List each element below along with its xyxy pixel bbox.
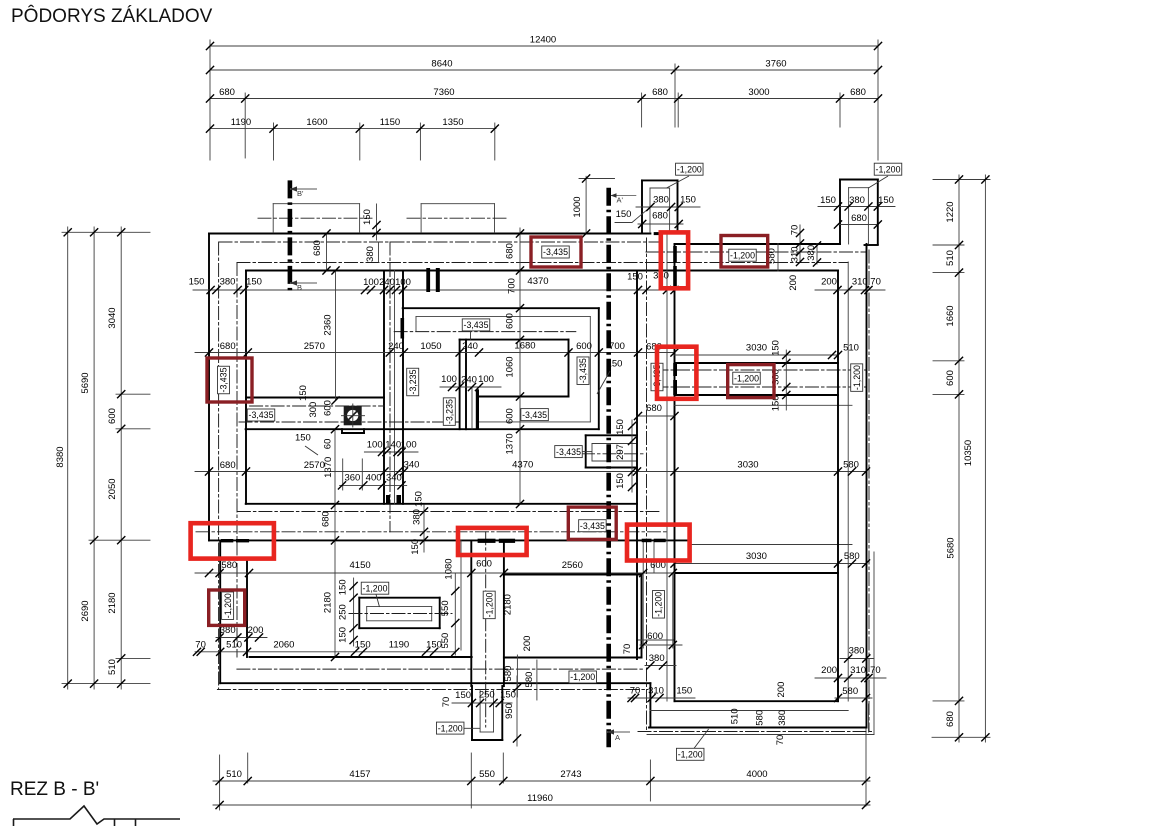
svg-text:150: 150 xyxy=(627,272,643,283)
svg-text:1150: 1150 xyxy=(380,117,400,128)
svg-text:380: 380 xyxy=(220,277,236,288)
svg-text:A: A xyxy=(615,733,620,742)
svg-text:-3,235: -3,235 xyxy=(408,369,418,394)
svg-text:5690: 5690 xyxy=(80,372,91,393)
svg-text:680: 680 xyxy=(646,403,662,414)
svg-text:580: 580 xyxy=(503,666,514,682)
svg-text:3030: 3030 xyxy=(746,551,767,562)
svg-text:100: 100 xyxy=(367,439,383,450)
svg-text:1680: 1680 xyxy=(514,341,535,352)
svg-text:-1,200: -1,200 xyxy=(363,583,388,593)
svg-text:-3,435: -3,435 xyxy=(219,367,229,392)
svg-text:1190: 1190 xyxy=(231,117,251,128)
svg-text:150: 150 xyxy=(298,385,309,401)
svg-text:200: 200 xyxy=(522,636,533,652)
svg-text:680: 680 xyxy=(220,341,236,352)
svg-text:580: 580 xyxy=(843,460,859,471)
svg-text:11960: 11960 xyxy=(527,793,553,804)
svg-text:600: 600 xyxy=(476,559,492,570)
svg-text:680: 680 xyxy=(220,460,236,471)
svg-text:150: 150 xyxy=(362,209,373,225)
svg-text:2743: 2743 xyxy=(560,769,581,780)
svg-text:4157: 4157 xyxy=(349,769,370,780)
svg-text:380: 380 xyxy=(849,195,865,206)
svg-text:380: 380 xyxy=(806,245,817,261)
svg-text:580: 580 xyxy=(524,672,535,688)
svg-text:340: 340 xyxy=(404,459,420,470)
svg-text:2690: 2690 xyxy=(80,600,91,621)
svg-text:REZ B - B': REZ B - B' xyxy=(10,779,99,800)
svg-text:140: 140 xyxy=(385,440,401,451)
svg-text:-1,200: -1,200 xyxy=(677,164,702,174)
svg-text:-3,435: -3,435 xyxy=(543,247,568,257)
svg-text:150: 150 xyxy=(455,690,471,701)
svg-text:150: 150 xyxy=(189,277,205,288)
svg-text:1350: 1350 xyxy=(442,117,463,128)
svg-text:600: 600 xyxy=(576,341,592,352)
svg-text:150: 150 xyxy=(337,627,348,643)
svg-text:4370: 4370 xyxy=(512,460,533,471)
svg-text:-1,200: -1,200 xyxy=(438,723,463,733)
svg-text:550: 550 xyxy=(479,769,495,780)
svg-text:70: 70 xyxy=(441,697,452,708)
svg-text:300: 300 xyxy=(308,402,319,418)
svg-text:-1,200: -1,200 xyxy=(852,365,862,390)
svg-text:250: 250 xyxy=(337,604,348,620)
svg-text:200: 200 xyxy=(788,275,799,291)
svg-text:150: 150 xyxy=(414,491,425,507)
dark red highlight boxes xyxy=(207,236,774,626)
svg-text:1060: 1060 xyxy=(504,356,515,377)
partial section drawing below REZ B-B title xyxy=(13,806,180,826)
svg-text:150: 150 xyxy=(615,419,626,435)
svg-text:1050: 1050 xyxy=(420,341,441,352)
svg-text:4150: 4150 xyxy=(350,560,371,571)
svg-text:200: 200 xyxy=(821,277,837,288)
svg-text:510: 510 xyxy=(730,708,741,724)
svg-text:400: 400 xyxy=(366,473,382,484)
svg-text:-1,200: -1,200 xyxy=(678,750,703,760)
svg-text:680: 680 xyxy=(312,240,323,256)
svg-text:1220: 1220 xyxy=(945,201,956,222)
svg-text:510: 510 xyxy=(843,343,859,354)
svg-text:550: 550 xyxy=(440,633,451,649)
svg-text:700: 700 xyxy=(609,341,625,352)
svg-text:12400: 12400 xyxy=(530,35,556,46)
svg-text:-1,200: -1,200 xyxy=(876,164,901,174)
svg-text:150: 150 xyxy=(355,639,371,650)
svg-text:100: 100 xyxy=(363,277,379,288)
svg-text:150: 150 xyxy=(771,340,782,356)
svg-text:-3,435: -3,435 xyxy=(578,358,588,383)
svg-text:-1,200: -1,200 xyxy=(484,592,494,617)
svg-text:680: 680 xyxy=(504,243,515,259)
svg-text:510: 510 xyxy=(226,639,242,650)
svg-text:-1,200: -1,200 xyxy=(223,593,233,618)
svg-text:2360: 2360 xyxy=(323,314,334,335)
svg-text:600: 600 xyxy=(945,370,956,386)
svg-text:1000: 1000 xyxy=(572,196,583,217)
svg-text:70: 70 xyxy=(630,686,641,697)
svg-text:580: 580 xyxy=(842,686,858,697)
svg-text:150: 150 xyxy=(878,195,894,206)
svg-text:150: 150 xyxy=(680,195,696,206)
svg-text:150: 150 xyxy=(246,277,262,288)
svg-text:310: 310 xyxy=(852,277,868,288)
svg-text:60: 60 xyxy=(323,439,334,450)
svg-text:580: 580 xyxy=(755,710,766,726)
svg-text:297: 297 xyxy=(615,444,626,460)
svg-text:680: 680 xyxy=(652,87,668,98)
flue / chimney symbol xyxy=(341,404,365,428)
svg-text:950: 950 xyxy=(504,703,515,719)
svg-text:3000: 3000 xyxy=(748,87,769,98)
svg-text:510: 510 xyxy=(107,659,118,675)
svg-text:240: 240 xyxy=(462,341,478,352)
svg-text:2180: 2180 xyxy=(503,594,514,615)
svg-text:1660: 1660 xyxy=(945,305,956,326)
svg-text:100: 100 xyxy=(478,374,494,385)
svg-text:70: 70 xyxy=(195,639,206,650)
svg-text:310: 310 xyxy=(790,246,801,262)
svg-text:380: 380 xyxy=(849,646,865,657)
svg-text:200: 200 xyxy=(821,665,837,676)
svg-text:510: 510 xyxy=(945,250,956,266)
svg-text:-3,435: -3,435 xyxy=(522,410,547,420)
svg-text:70: 70 xyxy=(870,665,881,676)
level label boxes xyxy=(218,163,902,760)
svg-text:8380: 8380 xyxy=(55,446,66,467)
svg-text:150: 150 xyxy=(607,358,623,369)
svg-text:680: 680 xyxy=(945,711,956,727)
svg-text:680: 680 xyxy=(652,211,668,222)
svg-text:2050: 2050 xyxy=(107,478,118,499)
dimension texts xyxy=(55,35,974,805)
svg-text:70: 70 xyxy=(775,735,786,746)
svg-text:600: 600 xyxy=(504,313,515,329)
svg-text:600: 600 xyxy=(647,631,663,642)
svg-text:-3,435: -3,435 xyxy=(464,320,489,330)
svg-text:3760: 3760 xyxy=(765,59,786,70)
svg-text:680: 680 xyxy=(850,87,866,98)
svg-text:70: 70 xyxy=(870,277,881,288)
svg-text:680: 680 xyxy=(320,511,331,527)
svg-text:510: 510 xyxy=(226,769,242,780)
svg-text:680: 680 xyxy=(219,87,235,98)
svg-text:4000: 4000 xyxy=(746,769,767,780)
wall opening bars xyxy=(221,232,677,543)
svg-text:4370: 4370 xyxy=(527,276,548,287)
svg-text:1370: 1370 xyxy=(505,433,516,454)
svg-text:2180: 2180 xyxy=(107,592,118,613)
svg-text:8640: 8640 xyxy=(431,59,452,70)
svg-text:-1,200: -1,200 xyxy=(570,672,595,682)
svg-text:3030: 3030 xyxy=(746,343,767,354)
svg-text:310: 310 xyxy=(850,665,866,676)
svg-text:580: 580 xyxy=(844,551,860,562)
svg-text:100: 100 xyxy=(395,277,411,288)
svg-text:-3,435: -3,435 xyxy=(580,521,605,531)
svg-text:150: 150 xyxy=(337,579,348,595)
svg-text:600: 600 xyxy=(505,408,516,424)
svg-text:250: 250 xyxy=(479,690,495,701)
svg-text:100: 100 xyxy=(401,440,417,451)
svg-text:380: 380 xyxy=(411,509,422,525)
svg-text:150: 150 xyxy=(616,209,632,220)
svg-text:2060: 2060 xyxy=(273,639,294,650)
svg-text:150: 150 xyxy=(295,433,311,444)
svg-text:5680: 5680 xyxy=(946,537,957,558)
svg-text:1600: 1600 xyxy=(306,117,327,128)
svg-text:240: 240 xyxy=(388,341,404,352)
svg-text:700: 700 xyxy=(507,278,518,294)
section line A-A' xyxy=(606,188,611,748)
svg-text:3040: 3040 xyxy=(107,307,118,328)
dimension tick marks xyxy=(64,42,990,809)
svg-text:310: 310 xyxy=(648,686,664,697)
wall and dimension lines xyxy=(62,40,990,810)
svg-text:680: 680 xyxy=(851,213,867,224)
svg-text:10350: 10350 xyxy=(963,440,974,466)
svg-text:2180: 2180 xyxy=(323,592,334,613)
svg-text:580: 580 xyxy=(221,560,237,571)
svg-text:150: 150 xyxy=(676,686,692,697)
svg-text:1370: 1370 xyxy=(323,457,334,478)
svg-text:380: 380 xyxy=(653,195,669,206)
svg-text:1190: 1190 xyxy=(389,639,409,650)
svg-text:380: 380 xyxy=(649,653,665,664)
svg-text:7360: 7360 xyxy=(433,87,454,98)
bright red highlight boxes xyxy=(191,232,697,560)
svg-text:-1,200: -1,200 xyxy=(654,592,664,617)
svg-text:150: 150 xyxy=(615,473,626,489)
svg-text:340: 340 xyxy=(386,473,402,484)
svg-text:150: 150 xyxy=(500,690,516,701)
section line B-B' xyxy=(288,180,293,292)
svg-text:-3,435: -3,435 xyxy=(249,410,274,420)
leader lines xyxy=(305,176,888,748)
svg-text:380: 380 xyxy=(777,710,788,726)
svg-text:150: 150 xyxy=(410,539,421,555)
svg-text:240: 240 xyxy=(379,277,395,288)
svg-text:-3,235: -3,235 xyxy=(445,399,455,424)
svg-text:1080: 1080 xyxy=(444,558,455,579)
svg-text:360: 360 xyxy=(344,473,360,484)
svg-text:B: B xyxy=(297,283,302,292)
svg-text:2570: 2570 xyxy=(304,460,325,471)
svg-text:A': A' xyxy=(617,196,624,205)
svg-text:-3,435: -3,435 xyxy=(556,447,581,457)
svg-text:100: 100 xyxy=(441,374,457,385)
svg-text:-1,200: -1,200 xyxy=(730,250,755,260)
svg-text:380: 380 xyxy=(365,246,376,262)
svg-text:3030: 3030 xyxy=(737,460,758,471)
svg-text:550: 550 xyxy=(440,600,451,616)
svg-text:B': B' xyxy=(297,189,304,198)
svg-text:600: 600 xyxy=(107,408,118,424)
svg-text:70: 70 xyxy=(790,225,801,236)
svg-text:70: 70 xyxy=(622,644,633,655)
svg-text:240: 240 xyxy=(461,375,477,386)
svg-text:200: 200 xyxy=(776,682,787,698)
svg-text:150: 150 xyxy=(820,195,836,206)
svg-text:200: 200 xyxy=(248,625,264,636)
svg-text:-1,200: -1,200 xyxy=(734,373,759,383)
svg-text:2570: 2570 xyxy=(304,341,325,352)
svg-text:2560: 2560 xyxy=(562,560,583,571)
svg-text:PÔDORYS ZÁKLADOV: PÔDORYS ZÁKLADOV xyxy=(11,5,213,27)
svg-text:600: 600 xyxy=(323,400,334,416)
